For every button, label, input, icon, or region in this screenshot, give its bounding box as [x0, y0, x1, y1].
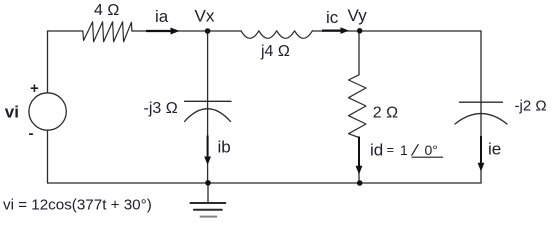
junction dot bottom at Vy branch: [357, 180, 363, 186]
wire inductor to node Vy: [312, 30, 359, 32]
wire bottom rail: [48, 182, 482, 184]
wire Vx branch: [207, 31, 209, 183]
capacitor C -j2ohm curved plate: [455, 114, 507, 124]
inductor L j4ohm: [241, 31, 312, 39]
svg-text:ia: ia: [155, 7, 169, 26]
svg-text:Vy: Vy: [348, 6, 368, 25]
svg-text:-j2 Ω: -j2 Ω: [515, 98, 547, 115]
ground bar 1: [190, 202, 225, 204]
svg-text:1: 1: [400, 142, 408, 158]
wire node Vy to top-right corner: [360, 30, 481, 32]
wire Vy branch upper: [358, 31, 360, 75]
current arrow ib: [204, 136, 211, 166]
capacitor C -j3ohm curved plate: [185, 109, 231, 122]
svg-text:Vx: Vx: [195, 7, 215, 26]
ground bar 2: [194, 209, 222, 211]
current arrow ic: [322, 27, 349, 34]
svg-text:ib: ib: [218, 138, 231, 157]
node Vx junction dot: [205, 28, 211, 34]
wire right vertical: [480, 31, 482, 183]
junction dot bottom at ground: [205, 180, 211, 186]
svg-text:vi: vi: [5, 103, 19, 122]
wire Vy branch lower: [358, 138, 360, 184]
label id phasor value: [370, 141, 443, 160]
svg-text:+: +: [30, 80, 39, 97]
capacitor C -j3ohm top plate: [185, 100, 232, 102]
voltage source vi circle: [29, 93, 66, 130]
current arrow ia: [146, 28, 180, 35]
wire resistor to node Vx: [132, 30, 241, 32]
svg-text:0°: 0°: [425, 142, 438, 158]
wire top-left segment: [48, 30, 83, 32]
resistor R 2ohm: [349, 75, 367, 138]
svg-text:-: -: [29, 125, 34, 142]
svg-text:id: id: [370, 141, 383, 160]
resistor R 4ohm: [83, 22, 132, 42]
current arrow ie: [478, 136, 485, 172]
svg-text:j4 Ω: j4 Ω: [260, 43, 290, 60]
current arrow id: [356, 137, 363, 175]
svg-text:vi = 12cos(377t + 30°): vi = 12cos(377t + 30°): [3, 197, 152, 214]
svg-text:4 Ω: 4 Ω: [94, 2, 119, 19]
wire left vertical lower: [47, 130, 49, 183]
svg-text:-j3 Ω: -j3 Ω: [144, 100, 178, 117]
wire left vertical upper: [47, 31, 49, 93]
capacitor C -j2ohm top plate: [460, 101, 503, 103]
svg-text:ic: ic: [326, 8, 339, 27]
node Vy junction dot: [357, 28, 363, 34]
svg-text:ie: ie: [488, 140, 501, 159]
ground stub: [207, 183, 209, 203]
svg-text:=: =: [387, 142, 395, 157]
ground bar 3: [200, 216, 217, 218]
svg-text:2 Ω: 2 Ω: [373, 105, 398, 122]
